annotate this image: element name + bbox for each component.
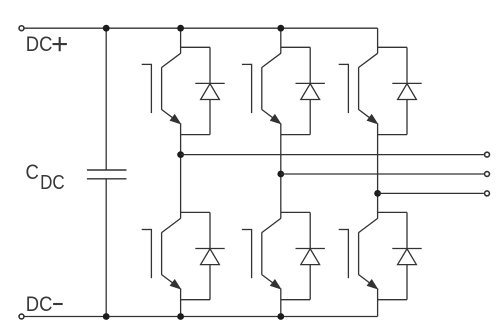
svg-text:DC: DC: [26, 33, 53, 57]
transistor Q1 with diode D1 (top leg1): [142, 47, 225, 134]
svg-text:DC: DC: [26, 293, 53, 317]
node capacitor-DC+: [103, 25, 110, 32]
terminal phase W: [485, 191, 490, 196]
terminal phase U: [485, 152, 490, 157]
wire phase V output: [281, 173, 484, 175]
wire leg1 emitter to DC-: [180, 288, 182, 316]
wire phase U output: [181, 154, 484, 156]
wire leg3 emitter to DC-: [377, 288, 379, 316]
node DC- leg1: [177, 313, 184, 320]
node DC+ leg1: [177, 25, 184, 32]
label C_DC: [26, 161, 39, 185]
node DC- leg2: [277, 313, 284, 320]
wire leg1 collector drop: [180, 28, 182, 53]
wire bottom DC- rail: [24, 316, 377, 318]
transistor Q4 with diode D4 (bottom leg2): [242, 212, 325, 299]
label DC+: [26, 33, 53, 57]
wire capacitor bottom lead: [105, 179, 107, 317]
node DC+ leg2: [277, 25, 284, 32]
svg-text:C: C: [26, 161, 39, 185]
terminal DC+: [19, 26, 24, 31]
wire top DC+ rail: [24, 27, 377, 29]
wire leg3 midpoint bus: [377, 123, 379, 218]
terminal phase V: [485, 172, 490, 177]
transistor Q6 with diode D6 (bottom leg3): [339, 212, 422, 299]
wire capacitor top lead: [105, 28, 107, 170]
wire leg1 midpoint bus: [180, 123, 182, 218]
node phase V: [277, 171, 284, 178]
wire leg2 emitter to DC-: [280, 288, 282, 316]
svg-text:DC: DC: [40, 171, 65, 194]
node phase W: [374, 190, 381, 197]
transistor Q3 with diode D3 (top leg2): [242, 47, 325, 134]
transistor Q5 with diode D5 (top leg3): [339, 47, 422, 134]
node phase U: [177, 151, 184, 158]
transistor Q2 with diode D2 (bottom leg1): [142, 212, 225, 299]
wire phase W output: [378, 192, 484, 194]
terminal DC-: [19, 314, 24, 319]
capacitor C_DC: [87, 170, 127, 179]
wire leg3 collector drop: [377, 28, 379, 53]
wire leg2 collector drop: [280, 28, 282, 53]
node capacitor-DC-: [103, 313, 110, 320]
label DC-: [26, 293, 53, 317]
wire leg2 midpoint bus: [280, 123, 282, 218]
